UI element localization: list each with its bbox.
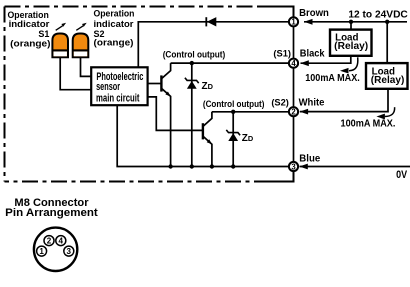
transistor Q1 emitter: [161, 88, 170, 166]
svg-text:4: 4: [59, 237, 64, 246]
svg-text:100mA MAX.: 100mA MAX.: [341, 118, 396, 130]
svg-text:main circuit: main circuit: [96, 93, 140, 105]
transistor Q2 collector: [203, 112, 212, 127]
wire: S1 output line to pin 4: [171, 62, 294, 64]
transistor Q1 emitter arrowhead: [165, 92, 170, 97]
svg-text:Blue: Blue: [299, 154, 320, 165]
pin 4 terminal: [289, 59, 298, 68]
node: Zd1 rail junction: [190, 164, 194, 168]
M8 pin 3: [64, 246, 74, 256]
svg-text:(Relay): (Relay): [371, 75, 405, 86]
pin 3 terminal: [289, 162, 298, 171]
diode D1 cathode bar: [205, 17, 207, 26]
zener diode Zd2 triangle: [228, 133, 238, 141]
svg-text:(Control output): (Control output): [163, 50, 226, 60]
svg-text:ZD: ZD: [242, 133, 254, 144]
arrowhead into pin 4: [300, 60, 309, 66]
transistor Q1 base wire: [148, 83, 162, 85]
pin 2 terminal: [289, 107, 298, 116]
node: load2 supply junction: [385, 20, 389, 24]
transistor Q2 base bar: [202, 123, 204, 139]
svg-text:indicator: indicator: [9, 19, 50, 29]
svg-text:0V: 0V: [396, 169, 407, 181]
wire: 12-24VDC supply line: [304, 21, 407, 23]
LED S1 band separator line: [53, 49, 68, 51]
M8 pin 1: [37, 246, 47, 256]
LED S1 emission arrow: [56, 26, 63, 31]
current direction curved arrow at load 2: [385, 107, 395, 116]
svg-text:(S1): (S1): [273, 49, 291, 59]
node: zener Zd1 top junction: [190, 61, 194, 65]
zener diode Zd2 cathode bar: [226, 130, 240, 135]
LED S1 white band: [54, 51, 67, 56]
svg-text:1: 1: [39, 247, 44, 256]
transistor Q2 base wire from main circuit: [148, 97, 203, 130]
svg-text:12 to 24VDC: 12 to 24VDC: [348, 10, 408, 21]
diode D1 triangle: [207, 17, 217, 26]
svg-text:indicator: indicator: [94, 19, 135, 29]
wire: emitter common rail to pin 3: [117, 105, 293, 166]
svg-text:Black: Black: [300, 49, 325, 60]
svg-text:(orange): (orange): [10, 39, 50, 49]
enclosure dash-dot border bottom side: [5, 181, 271, 183]
node: Q1 emitter rail junction: [168, 164, 172, 168]
enclosure border top-right solid segment: [261, 7, 294, 18]
svg-text:(S2): (S2): [271, 97, 289, 107]
svg-text:Operation: Operation: [94, 9, 135, 19]
wire: LED S1 to main circuit box: [60, 57, 91, 89]
wire: supply drop to load 1: [350, 22, 352, 30]
wire: brown supply line from pin1 to diode to main circuit: [138, 22, 293, 68]
M8 pin 4: [56, 236, 66, 246]
M8 pin 2: [44, 236, 54, 246]
M8 connector face circle: [34, 228, 77, 271]
svg-text:1: 1: [291, 18, 296, 27]
photoelectric sensor main circuit box: [91, 67, 147, 105]
LED S2 white band: [74, 51, 87, 56]
node: Q2 emitter rail junction: [210, 164, 214, 168]
arrowhead into pin 2: [300, 109, 309, 115]
pin 1 terminal: [289, 17, 298, 26]
LED indicator S2 body: [73, 34, 89, 58]
wire: pin rail pin1-pin4-pin2-pin3: [293, 22, 295, 167]
svg-text:ZD: ZD: [202, 81, 214, 92]
wire: load 1 to pin 4 (black): [301, 56, 351, 63]
wire: load 2 to pin 2 (white): [300, 89, 388, 112]
svg-text:Pin Arrangement: Pin Arrangement: [5, 207, 98, 219]
svg-text:4: 4: [291, 59, 296, 68]
zener diode Zd1 triangle: [187, 81, 197, 89]
svg-text:(Relay): (Relay): [334, 41, 368, 52]
svg-text:2: 2: [47, 237, 52, 246]
enclosure dash-dot border left side: [4, 7, 6, 182]
arrowhead into pin 3: [299, 164, 308, 170]
transistor Q1 collector: [161, 63, 170, 79]
LED S2 emission arrow: [76, 26, 83, 31]
zener diode Zd1 wire: [191, 63, 193, 166]
transistor Q2 emitter: [203, 136, 212, 166]
zener diode Zd2 wire: [232, 112, 234, 167]
svg-text:3: 3: [291, 162, 296, 171]
arrowhead into pin 1: [304, 19, 313, 25]
LED S2 band separator line: [73, 49, 88, 51]
current direction curved arrow at load 1: [349, 57, 358, 70]
node: zener Zd2 top junction: [231, 110, 235, 114]
zener diode Zd1 cathode bar: [185, 78, 199, 83]
svg-text:100mA MAX.: 100mA MAX.: [305, 72, 360, 84]
load 2 (relay) box: [366, 63, 408, 89]
wire: supply drop to load 2: [386, 22, 388, 63]
transistor Q1 base bar: [160, 75, 162, 91]
svg-text:Brown: Brown: [299, 8, 329, 19]
wire: 0V line to pin 3: [300, 166, 410, 168]
svg-text:3: 3: [67, 247, 72, 256]
svg-text:sensor: sensor: [96, 81, 120, 93]
LED indicator S1 body: [52, 34, 68, 58]
svg-text:(Control output): (Control output): [203, 99, 265, 109]
wire: LED S2 to main circuit box: [81, 57, 92, 76]
wire: S2 output line to pin 2: [212, 111, 294, 113]
svg-text:(orange): (orange): [94, 38, 134, 48]
load 1 (relay) box: [330, 30, 372, 56]
enclosure dash-dot border top side: [5, 6, 263, 8]
node: load1 supply junction: [349, 20, 353, 24]
svg-text:2: 2: [291, 108, 296, 117]
svg-text:White: White: [299, 98, 325, 109]
node: Zd2 rail junction: [231, 164, 235, 168]
enclosure border bottom-right solid segment: [270, 171, 294, 182]
transistor Q2 emitter arrowhead: [207, 139, 212, 144]
